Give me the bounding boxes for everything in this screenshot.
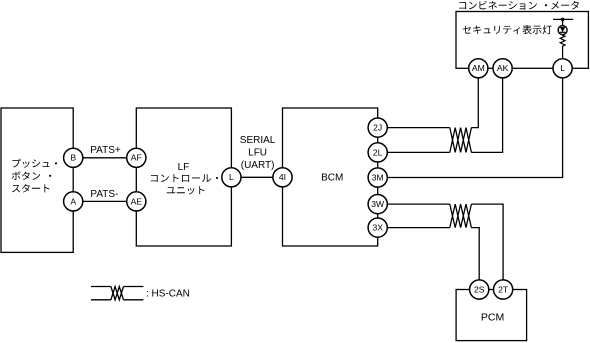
svg-text:: HS-CAN: : HS-CAN xyxy=(146,289,190,300)
pin L (LF unit) xyxy=(222,168,241,187)
svg-text:SERIAL: SERIAL xyxy=(240,135,276,146)
pin AM xyxy=(469,59,488,78)
pin AE xyxy=(127,192,146,211)
box PCM xyxy=(456,290,526,341)
pin 2L xyxy=(368,143,387,162)
svg-text:PCM: PCM xyxy=(481,311,504,323)
svg-text:PATS+: PATS+ xyxy=(90,145,121,156)
pin B xyxy=(64,148,83,167)
wire 3W to twisted pair xyxy=(378,203,450,205)
pin 3W xyxy=(368,195,387,214)
svg-text:(UART): (UART) xyxy=(241,160,275,171)
svg-text:A: A xyxy=(70,196,76,206)
svg-text:2L: 2L xyxy=(373,147,383,157)
pin L (meter) xyxy=(553,59,572,78)
twisted pair HS-CAN (2J/2L) xyxy=(450,128,472,153)
security indicator lamp (LED) xyxy=(558,26,567,35)
legend twisted pair symbol xyxy=(111,287,124,300)
pin A xyxy=(64,192,83,211)
wire 3M to meter L xyxy=(378,78,563,178)
svg-text:2S: 2S xyxy=(474,284,485,294)
label push-button start (jp line1) xyxy=(12,159,57,168)
box combination meter xyxy=(456,12,588,69)
svg-text:2T: 2T xyxy=(498,284,509,294)
box push-button start unit xyxy=(1,108,73,252)
svg-text:L: L xyxy=(229,172,234,182)
wire twisted pair to 2T xyxy=(471,204,503,280)
label push-button start (jp line3) xyxy=(12,184,50,193)
legend twisted-pair wires xyxy=(91,286,111,288)
svg-text:3M: 3M xyxy=(372,172,384,182)
svg-text:4I: 4I xyxy=(279,172,286,182)
label combination meter title (jp) xyxy=(459,1,537,10)
wire PATS- (A to AE) xyxy=(73,200,136,202)
label push-button start (jp line2) xyxy=(12,171,41,180)
wire PATS+ (B to AF) xyxy=(73,157,136,159)
wire twisted pair to AM xyxy=(471,78,478,128)
svg-text:AE: AE xyxy=(131,196,143,206)
meter supply bar xyxy=(553,18,573,20)
svg-text:LFU: LFU xyxy=(248,147,267,158)
pin AK xyxy=(493,59,512,78)
svg-text:AF: AF xyxy=(131,153,142,163)
svg-text:PATS-: PATS- xyxy=(90,189,118,200)
box LF control unit xyxy=(136,108,231,246)
svg-text:2J: 2J xyxy=(373,123,382,133)
wire 3X to twisted pair xyxy=(378,227,450,229)
junction dot xyxy=(561,18,565,22)
svg-text:AK: AK xyxy=(497,63,509,73)
svg-text:3X: 3X xyxy=(372,223,383,233)
pin 3M xyxy=(368,168,387,187)
wire 2J to twisted pair xyxy=(378,127,450,129)
pin 2J xyxy=(368,118,387,137)
pin 4I xyxy=(273,168,292,187)
pin 2S xyxy=(470,280,489,299)
wire bar to lamp xyxy=(562,19,564,25)
label LF control unit (jp line2) xyxy=(167,186,205,194)
wire SERIAL LFU UART (L to 4I) xyxy=(231,176,282,178)
svg-text:3W: 3W xyxy=(371,199,385,209)
label security indicator (jp) xyxy=(463,25,552,34)
wire twisted pair to 2S xyxy=(471,228,479,280)
label LF control unit (jp line1) xyxy=(151,174,211,182)
pin AF xyxy=(127,148,146,167)
pin 3X xyxy=(368,218,387,237)
twisted pair HS-CAN (3W/3X) xyxy=(450,204,472,228)
wire twisted pair to AK xyxy=(471,78,502,152)
box BCM xyxy=(283,108,378,246)
wire 2L to twisted pair xyxy=(378,151,450,153)
svg-text:BCM: BCM xyxy=(321,173,343,184)
resistor in meter xyxy=(560,35,565,59)
svg-text:B: B xyxy=(70,153,76,163)
pin 2T xyxy=(494,280,513,299)
svg-text:L: L xyxy=(560,63,565,73)
svg-text:AM: AM xyxy=(472,63,485,73)
svg-text:LF: LF xyxy=(178,162,190,173)
